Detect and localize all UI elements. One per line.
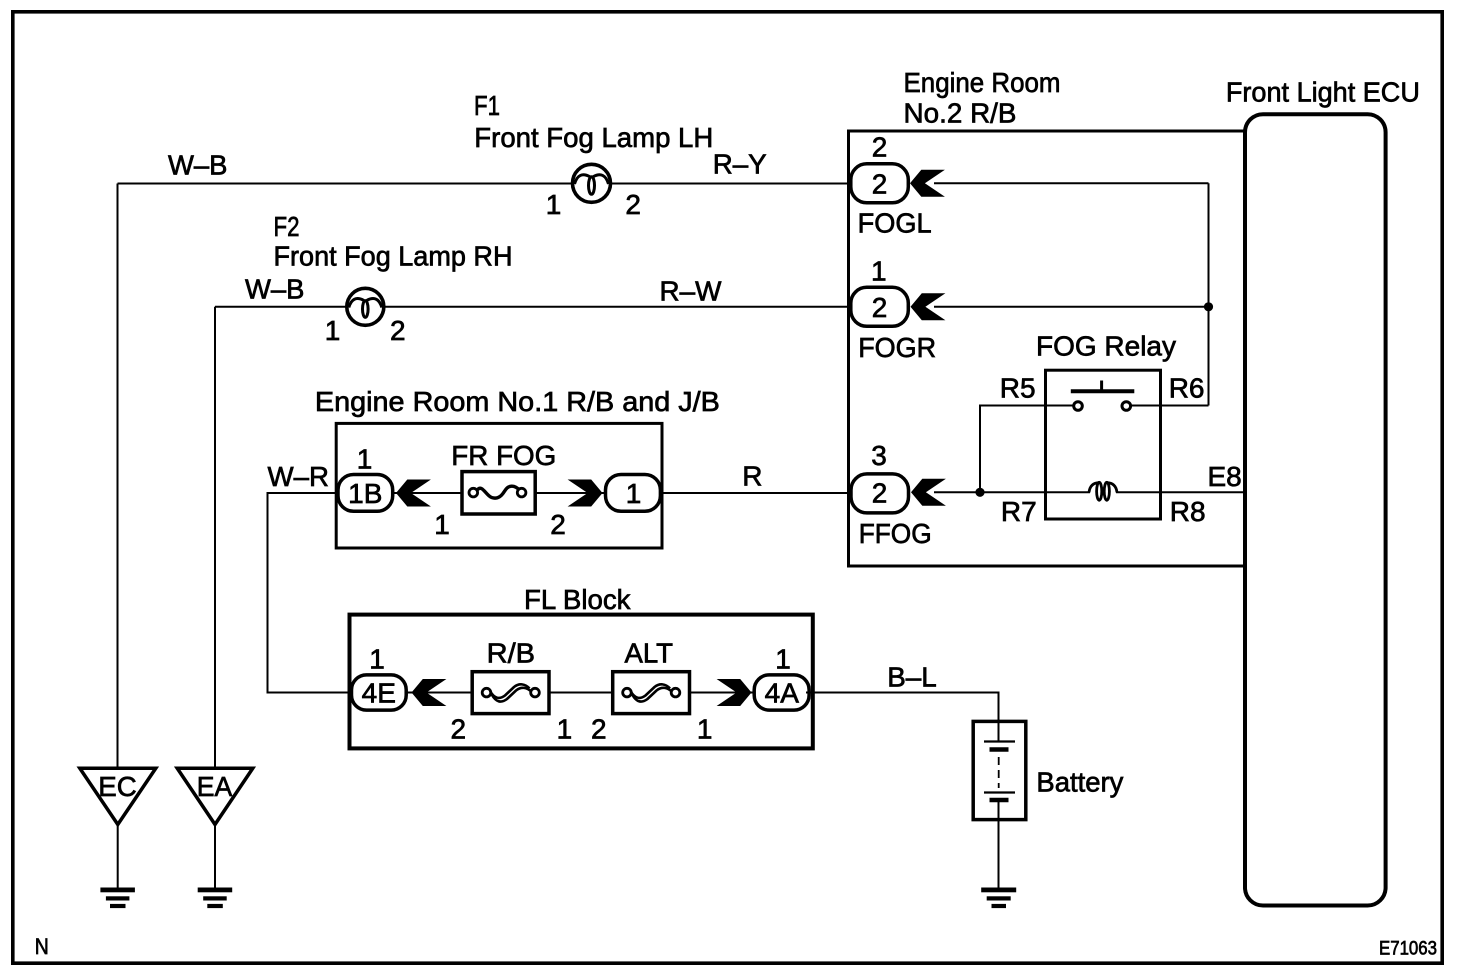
wire W-B from EC ground to F1 lamp (horizontal + left vertical) [118,184,853,769]
svg-text:F1: F1 [474,90,500,121]
svg-text:N: N [35,934,49,959]
wire inside Engine Room No.1 box [394,492,605,494]
fusible link ALT [613,672,690,714]
svg-text:EA: EA [197,771,233,802]
wire R from oval 1 to FFOG [655,492,852,494]
svg-text:R6: R6 [1169,373,1205,404]
arrow into FOGL [910,170,945,197]
svg-text:2: 2 [390,315,406,346]
svg-text:W–B: W–B [245,274,305,305]
svg-text:B–L: B–L [887,662,937,693]
connector FOGL pin 2 [851,164,909,203]
svg-text:1: 1 [434,509,450,540]
Engine Room No.2 R/B box [849,131,1247,566]
svg-text:EC: EC [98,771,137,802]
battery ground symbol [981,888,1016,909]
arrow into oval 1 [568,480,603,507]
svg-text:1: 1 [369,643,385,674]
svg-text:FFOG: FFOG [859,518,932,549]
relay contact right [1122,402,1131,411]
FOG Relay box [1046,370,1161,519]
svg-text:R5: R5 [1000,373,1036,404]
arrow out of 1B [396,480,431,507]
wire W-B from EA ground to F2 lamp [215,307,852,768]
svg-text:F2: F2 [274,211,300,242]
lamp F1 Front Fog Lamp LH [573,164,611,202]
relay switch tick [1100,381,1103,392]
svg-text:1: 1 [357,443,373,474]
arrow into 4E [412,679,447,706]
svg-text:2: 2 [872,292,888,323]
svg-text:2: 2 [625,189,641,220]
wire EC to ground [117,825,119,890]
ground triangle EC [80,768,156,824]
svg-text:2: 2 [872,131,888,162]
svg-text:Battery: Battery [1036,766,1123,797]
svg-text:4A: 4A [765,678,800,709]
svg-text:2: 2 [591,713,607,744]
svg-text:R–W: R–W [660,276,723,307]
connector FOGR pin 2 [851,287,909,326]
svg-text:1B: 1B [348,478,382,509]
svg-text:1: 1 [626,478,642,509]
wire from relay R6 contact to riser [1131,405,1209,407]
ground symbol EA [198,888,233,909]
svg-text:2: 2 [550,509,566,540]
svg-text:Engine Room No.1 R/B and J/B: Engine Room No.1 R/B and J/B [315,386,720,417]
svg-text:Front Light ECU: Front Light ECU [1226,77,1420,108]
svg-text:1: 1 [325,315,341,346]
Engine Room No.1 R/B and J/B box [336,423,662,548]
svg-text:2: 2 [872,478,888,509]
junction dot on FFOG wire [975,488,984,497]
svg-text:E8: E8 [1208,461,1242,492]
fuse FR FOG [462,472,535,514]
relay coil [1089,482,1117,500]
svg-text:R–Y: R–Y [713,149,767,180]
battery [973,721,1026,819]
wire B-L from 4A to battery [806,693,999,742]
arrow into FFOG [911,479,946,506]
svg-text:Engine Room: Engine Room [904,67,1061,98]
svg-text:W–B: W–B [168,149,228,180]
Front Light ECU box [1245,114,1386,905]
fusible link R/B [472,672,549,714]
ground triangle EA [177,768,253,824]
svg-text:1: 1 [775,643,791,674]
svg-text:FOG Relay: FOG Relay [1036,331,1176,362]
wire riser from junction up to relay R5 [980,406,1073,493]
svg-text:FR FOG: FR FOG [451,440,556,471]
svg-text:4E: 4E [362,678,396,709]
svg-text:1: 1 [546,189,562,220]
svg-text:R/B: R/B [487,637,535,668]
svg-text:1: 1 [871,255,887,286]
wire from FOGL arrow to riser [934,182,1209,184]
connector 1B [338,475,393,512]
wire inside FL Block [405,692,756,694]
svg-text:2: 2 [451,713,467,744]
arrow into FOGR [911,293,946,320]
connector 1 (Engine Room No.1 output) [606,475,661,512]
svg-text:Front Fog Lamp RH: Front Fog Lamp RH [274,240,513,271]
svg-text:1: 1 [697,713,713,744]
wire from FOGR arrow to riser [934,306,1209,308]
svg-text:No.2 R/B: No.2 R/B [904,98,1017,129]
svg-text:FOGR: FOGR [858,332,936,363]
FL Block box [350,615,813,749]
svg-text:R: R [742,461,762,492]
wire EA to ground [214,825,216,890]
lamp F2 Front Fog Lamp RH [347,288,384,325]
svg-text:E71063: E71063 [1379,939,1437,960]
connector 4A [754,675,809,710]
svg-text:1: 1 [557,713,573,744]
junction dot on FOGR wire [1204,302,1213,311]
ground symbol EC [100,888,134,909]
connector FFOG pin 2 [851,474,909,513]
svg-text:W–R: W–R [268,461,330,492]
svg-text:R7: R7 [1001,496,1037,527]
label Engine Room No.2 R/B [904,67,1061,129]
svg-text:2: 2 [872,169,888,200]
wire from battery to ground [998,800,1000,890]
svg-text:ALT: ALT [625,637,674,668]
relay contact left [1074,402,1083,411]
wire riser down to relay R6 [1208,183,1210,405]
arrow into 4A [717,679,752,706]
connector 4E [352,675,407,710]
relay switch bar [1071,389,1135,393]
wire from FFOG arrow through relay coil to ECU [934,491,1090,493]
svg-text:R8: R8 [1170,496,1206,527]
svg-text:Front Fog Lamp LH: Front Fog Lamp LH [474,122,713,153]
wire W-R from 1B down to FL Block [268,493,356,693]
svg-text:3: 3 [871,440,887,471]
svg-text:FOGL: FOGL [858,208,932,239]
svg-text:FL Block: FL Block [524,584,631,615]
